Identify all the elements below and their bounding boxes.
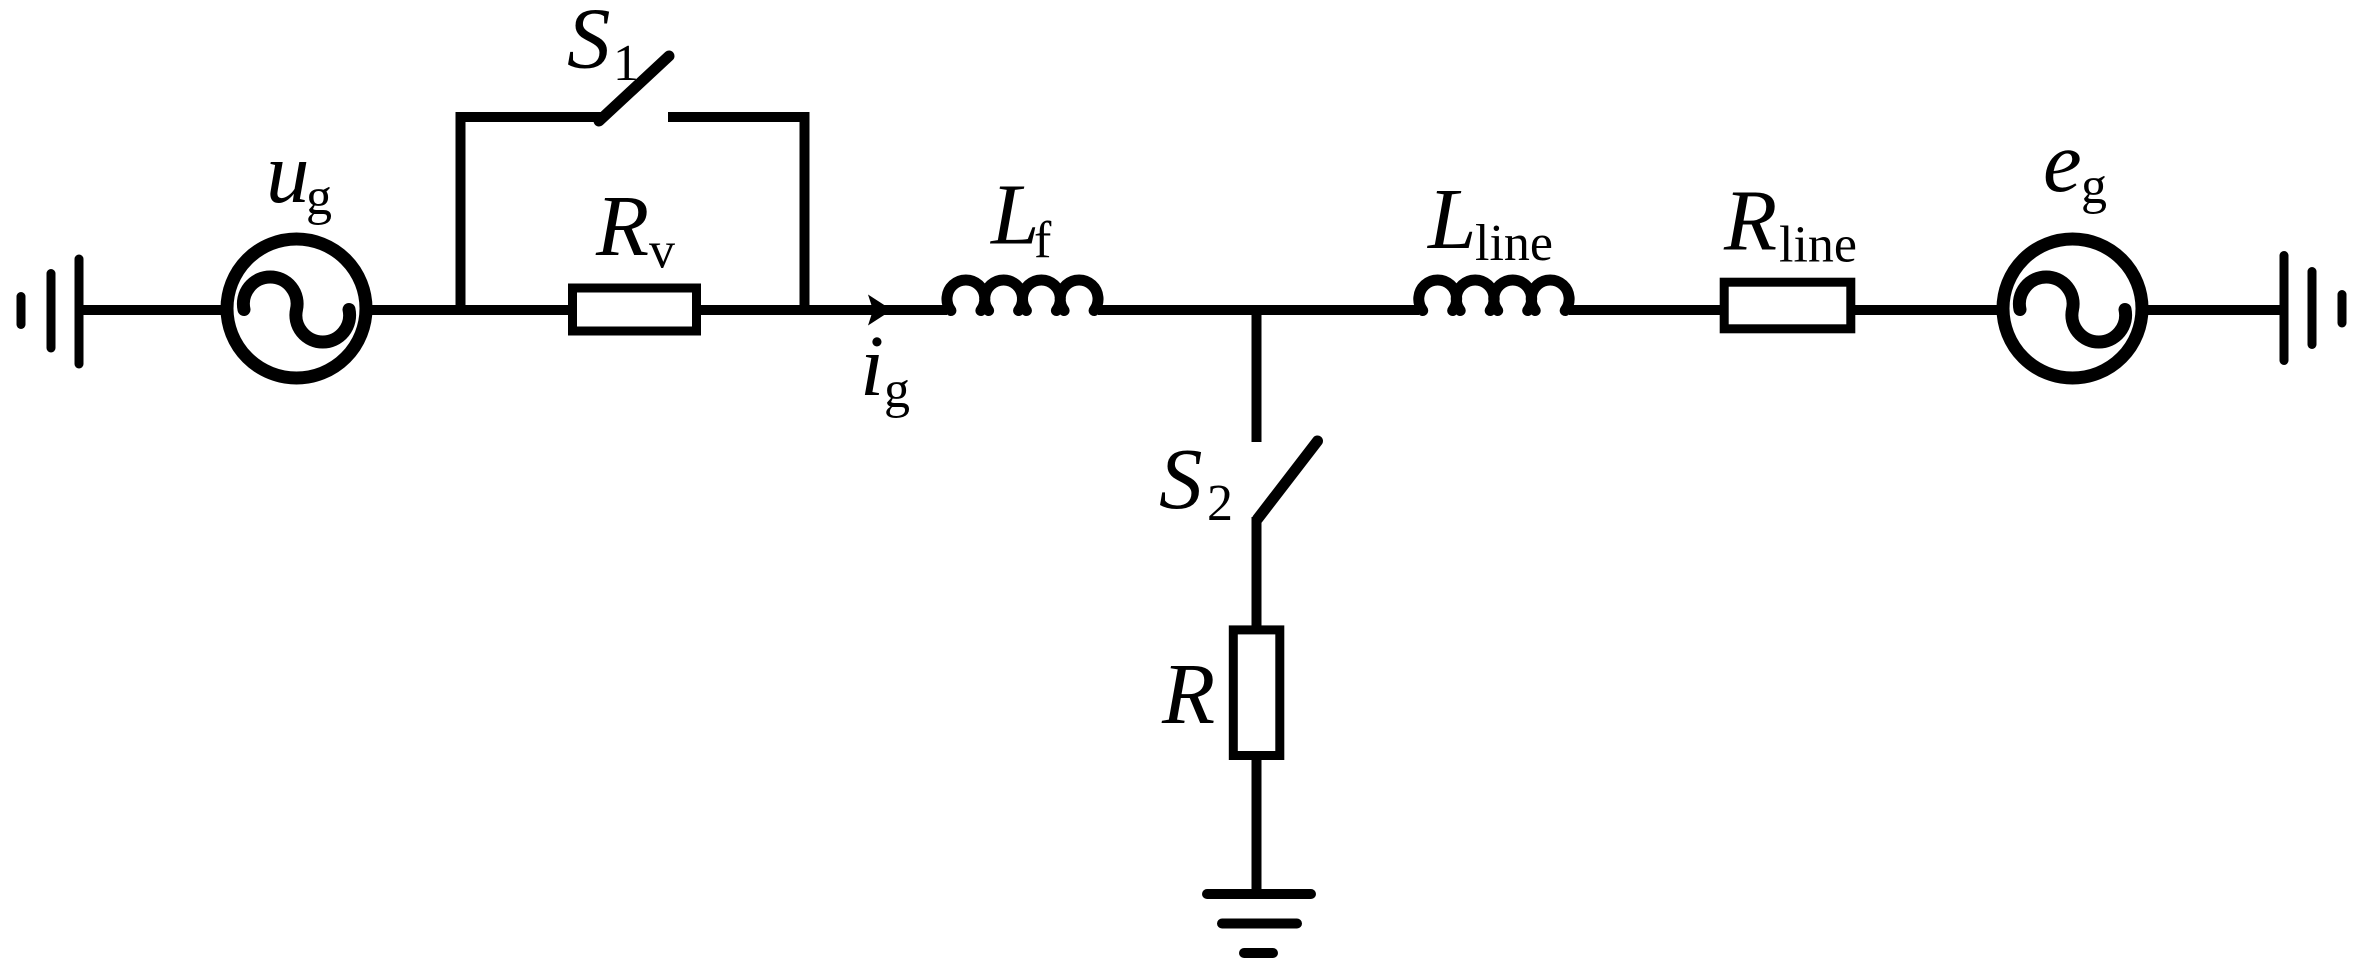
wire resistor R to ground <box>1252 756 1262 894</box>
svg-text:L: L <box>1426 170 1476 267</box>
svg-text:R: R <box>1723 172 1777 269</box>
svg-text:g: g <box>2081 158 2107 215</box>
current arrow i_g <box>868 295 892 326</box>
svg-text:u: u <box>266 124 310 221</box>
svg-text:L: L <box>989 166 1039 263</box>
wire left ground to u_g <box>79 305 228 315</box>
svg-text:2: 2 <box>1207 475 1233 532</box>
resistor R_line <box>1724 282 1851 329</box>
wire S1 bypass left riser and top-left segment <box>461 117 603 310</box>
resistor R_v <box>573 288 697 331</box>
svg-text:i: i <box>860 317 884 414</box>
AC source e_g <box>2003 239 2142 378</box>
svg-text:v: v <box>649 223 675 280</box>
svg-text:line: line <box>1779 217 1857 274</box>
svg-text:R: R <box>1161 645 1215 742</box>
switch S1 blade <box>599 56 669 121</box>
AC source u_g <box>227 239 366 378</box>
svg-text:S: S <box>1159 430 1203 527</box>
resistor R <box>1233 630 1280 756</box>
svg-text:1: 1 <box>613 35 639 92</box>
wire L_line to e_g <box>1569 305 2006 315</box>
switch S2 blade <box>1258 441 1318 519</box>
svg-text:g: g <box>884 362 910 419</box>
wire L_f to L_line <box>1098 305 1419 315</box>
svg-text:R: R <box>595 177 649 274</box>
svg-text:g: g <box>306 169 332 226</box>
svg-text:e: e <box>2043 113 2082 210</box>
svg-text:f: f <box>1034 212 1052 269</box>
inductor L_f <box>947 280 1098 311</box>
ground left (rail symbol, 3 bars) <box>21 259 79 364</box>
ground right (rail symbol, 3 bars) <box>2284 256 2342 361</box>
wire S1 bypass top-right segment and right riser <box>668 117 805 310</box>
svg-text:line: line <box>1475 215 1553 272</box>
wire e_g to right ground <box>2139 305 2284 315</box>
node junction wire down from main line <box>1252 310 1262 442</box>
inductor L_line <box>1419 280 1569 311</box>
ground bottom (earth symbol, 3 bars) <box>1207 894 1311 953</box>
wire u_g to L_f <box>366 305 947 315</box>
wire S2 to resistor R <box>1252 517 1262 630</box>
svg-text:S: S <box>567 0 611 87</box>
